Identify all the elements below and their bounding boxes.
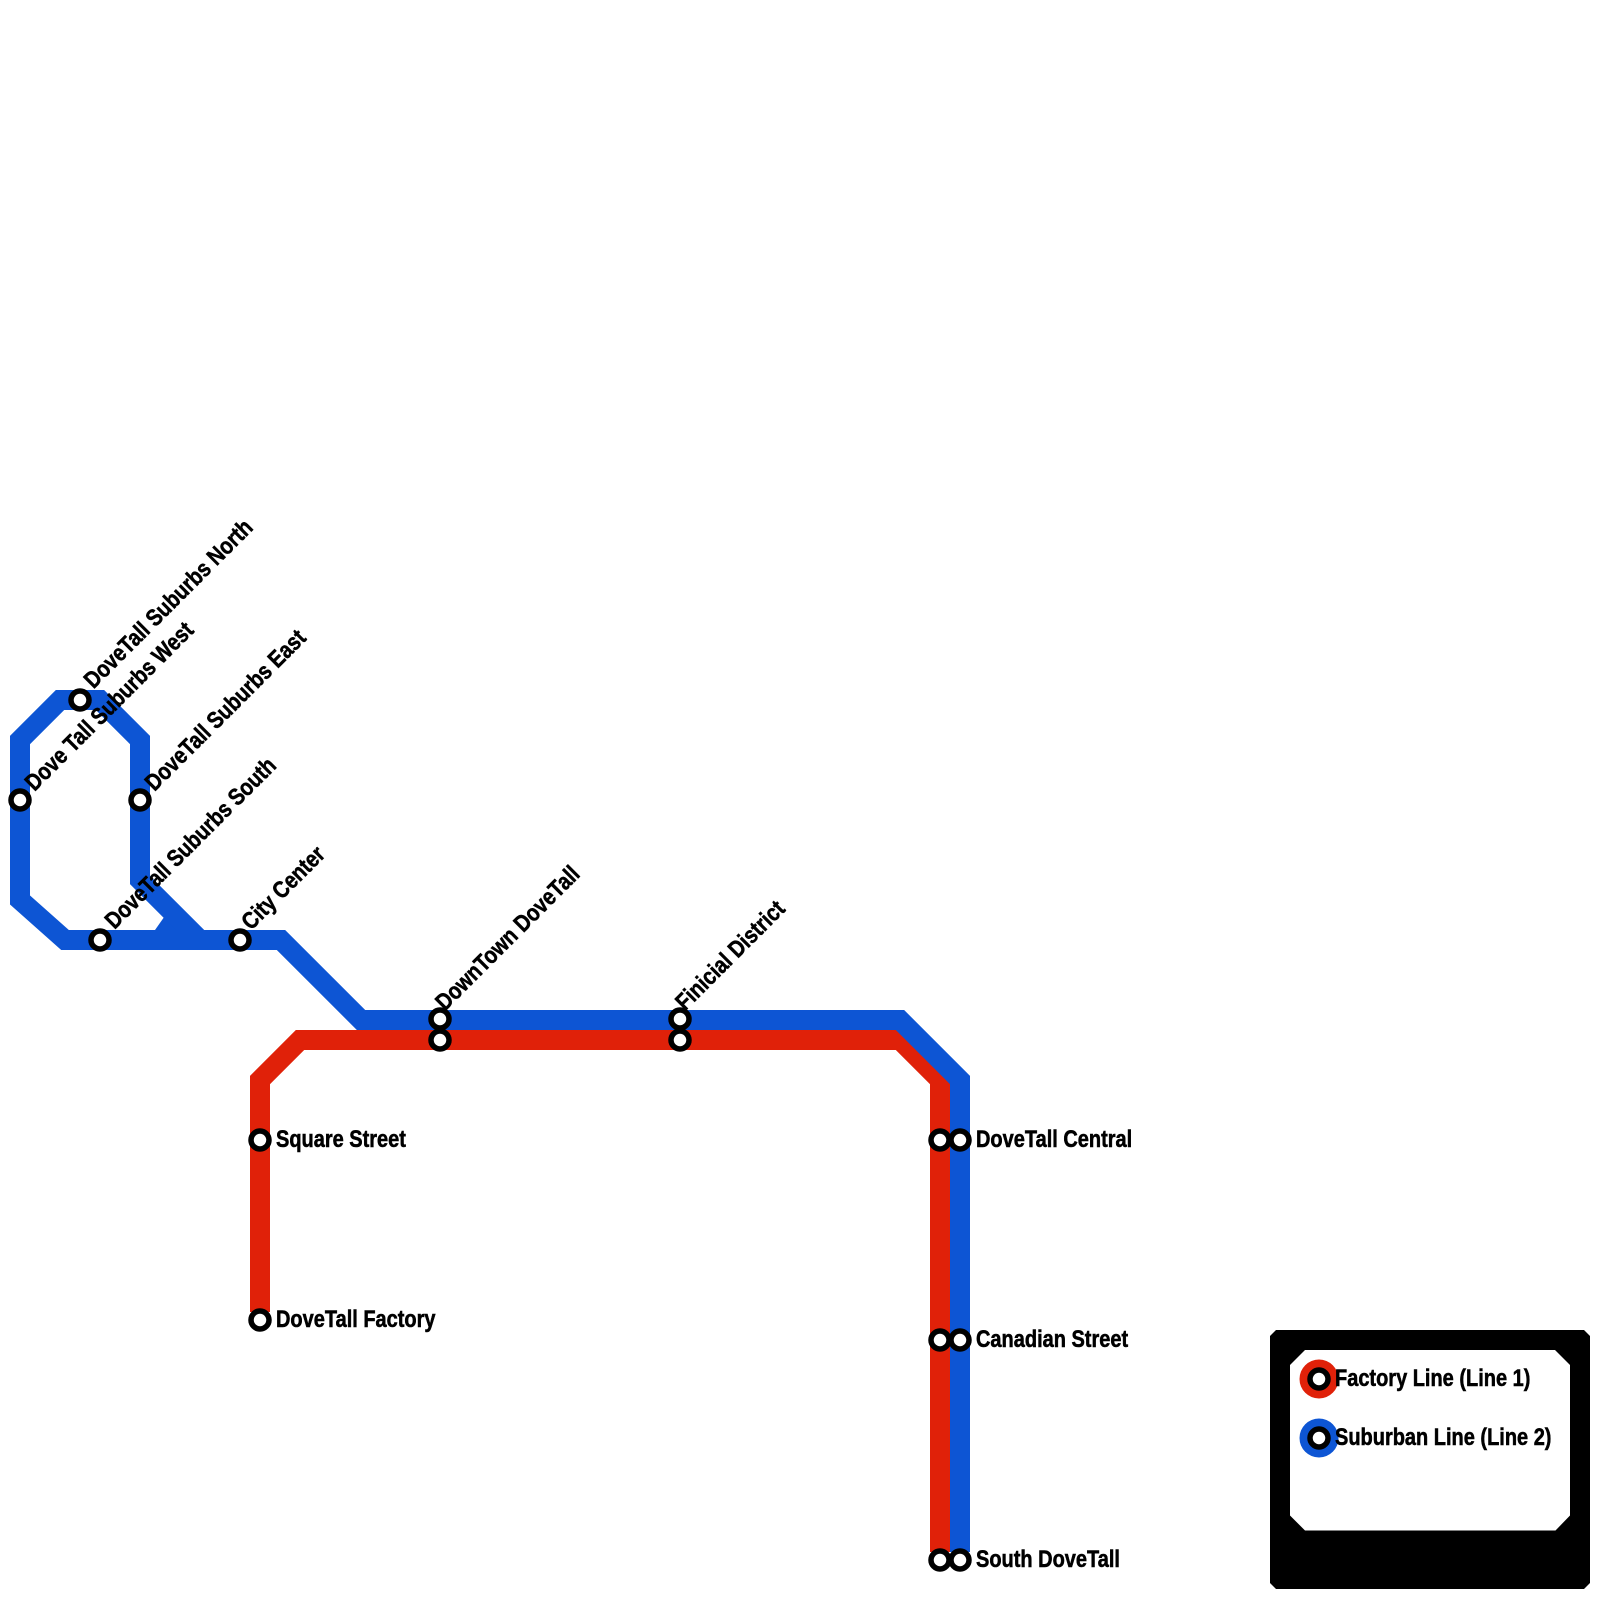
station South DoveTall (blue) [951,1551,969,1569]
svg-text:DoveTall Central: DoveTall Central [976,1125,1132,1152]
station DownTown DoveTall (blue) [431,1010,449,1028]
station DoveTall Factory [251,1311,269,1329]
red factory line wire (DoveTall Factory to South DoveTall) [260,1040,940,1552]
station Dove Tall Suburbs West [11,791,29,809]
station Square Street [251,1131,269,1149]
station Canadian Street (red) [931,1331,949,1349]
station South DoveTall (red) [931,1551,949,1569]
legend marker Factory Line (red) [1300,1360,1339,1399]
svg-text:South DoveTall: South DoveTall [976,1545,1120,1572]
station DoveTall Suburbs North [71,691,89,709]
svg-text:Square Street: Square Street [276,1125,407,1152]
svg-text:DoveTall Factory: DoveTall Factory [276,1305,436,1332]
station DoveTall Suburbs South [91,931,109,949]
legend marker Suburban Line (blue) [1300,1419,1339,1458]
station Finicial District (blue) [671,1010,689,1028]
station DoveTall Central (blue) [951,1131,969,1149]
station Finicial District (red) [671,1031,689,1049]
svg-text:Canadian Street: Canadian Street [976,1325,1129,1352]
svg-text:Suburban Line (Line 2): Suburban Line (Line 2) [1335,1423,1551,1450]
svg-text:Factory Line (Line 1): Factory Line (Line 1) [1335,1364,1530,1391]
station City Center [231,931,249,949]
blue junction fill at loop branch [155,917,178,931]
legend box outer black frame [1270,1330,1590,1589]
station DownTown DoveTall (red) [431,1031,449,1049]
legend box inner white panel [1290,1350,1570,1531]
blue suburban line wire (loop + trunk to South DoveTall) [20,700,960,1552]
station DoveTall Central (red) [931,1131,949,1149]
station Canadian Street (blue) [951,1331,969,1349]
station DoveTall Suburbs East [131,791,149,809]
